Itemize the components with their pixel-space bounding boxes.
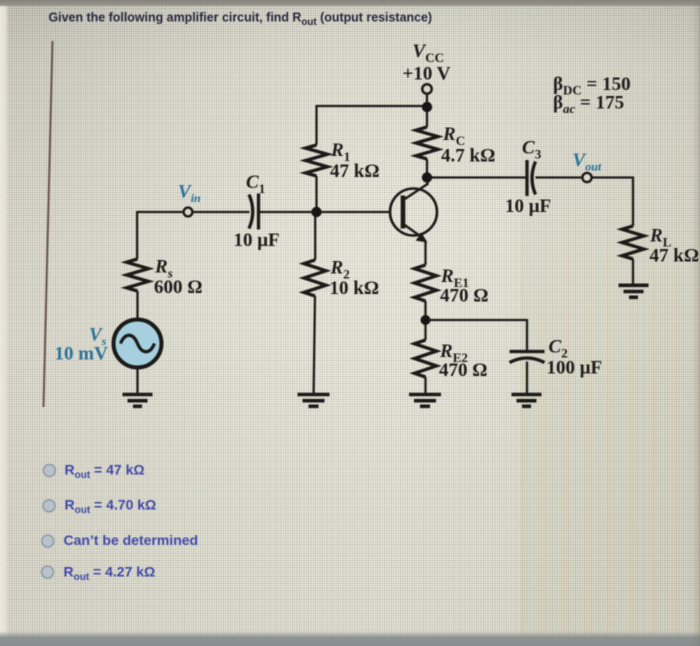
wire emitter to RE1 <box>424 241 426 265</box>
svg-text:C1: C1 <box>246 172 265 196</box>
svg-text:RC: RC <box>442 124 465 148</box>
option text 4 <box>64 564 156 584</box>
beta DC label <box>553 74 631 98</box>
wire Vin to C1 <box>192 211 249 213</box>
option text 3 <box>64 532 199 548</box>
svg-text:C3: C3 <box>522 138 542 162</box>
svg-text:10 kΩ: 10 kΩ <box>330 278 380 299</box>
title text <box>49 11 433 28</box>
svg-text:100 μF: 100 μF <box>547 358 603 379</box>
resistor R2 label <box>330 258 380 300</box>
wire emitter node to RE2 <box>424 319 426 340</box>
wire Vout to RL corner <box>591 178 633 227</box>
resistor RC <box>416 127 438 159</box>
svg-text:10 μF: 10 μF <box>505 196 551 217</box>
resistor R2 <box>304 260 326 296</box>
wire Rs to source <box>136 291 138 321</box>
node junction emitter <box>421 315 431 325</box>
svg-text:Given the following amplifier: Given the following amplifier circuit, f… <box>49 11 433 28</box>
node Vout label <box>573 150 602 174</box>
option text 2 <box>65 497 157 517</box>
wire RC bottom to collector node <box>426 159 428 178</box>
node junction collector <box>422 172 432 182</box>
option radio 3 <box>42 535 54 547</box>
capacitor C3 label <box>505 138 551 218</box>
transistor Q1 <box>390 176 437 243</box>
resistor Rs <box>127 259 149 291</box>
resistor RL label <box>649 226 699 267</box>
resistor RE1 <box>415 265 437 301</box>
svg-text:Rout = 4.70 kΩ: Rout = 4.70 kΩ <box>65 497 157 517</box>
source Vs label <box>55 325 109 365</box>
wire RE2 to ground <box>424 377 426 394</box>
resistor RE2 label <box>439 341 487 381</box>
ground R2 <box>298 395 330 407</box>
wire C2 to ground <box>526 362 528 394</box>
wire C1 to base node and transistor <box>260 211 391 213</box>
wire emitter node to C2 <box>426 319 528 321</box>
wire left column to Rs <box>136 211 138 259</box>
svg-text:10 μF: 10 μF <box>234 230 280 251</box>
resistor RL <box>622 226 644 259</box>
wire R1 bottom to base node <box>315 176 317 212</box>
capacitor C2 label <box>547 337 603 379</box>
resistor RC label <box>441 124 495 167</box>
resistor RE1 label <box>440 266 488 307</box>
resistor Rs label <box>154 257 202 299</box>
capacitor C1 label <box>234 172 280 251</box>
svg-text:47 kΩ: 47 kΩ <box>330 161 380 182</box>
VCC label <box>403 41 451 85</box>
svg-text:470 Ω: 470 Ω <box>439 360 487 381</box>
wire C3 to Vout <box>536 176 583 178</box>
capacitor C3 <box>527 160 536 196</box>
svg-text:470 Ω: 470 Ω <box>440 286 488 307</box>
wire RE1 to emitter node <box>424 301 426 321</box>
wire collector node to C3 <box>427 176 526 178</box>
node Vin terminal <box>184 208 193 217</box>
svg-text:VCC: VCC <box>413 41 444 65</box>
ground Vs <box>123 395 153 407</box>
ground RL <box>619 285 649 297</box>
ground C2 <box>512 395 542 407</box>
wire Vin left segment <box>137 211 184 213</box>
resistor RE2 <box>415 340 437 377</box>
resistor R1 <box>306 145 328 176</box>
svg-text:Vout: Vout <box>573 150 602 174</box>
node junction base <box>311 207 321 217</box>
svg-text:Rout = 4.27 kΩ: Rout = 4.27 kΩ <box>64 564 156 584</box>
option radio 4 <box>42 566 54 578</box>
beta ac label <box>553 93 624 117</box>
wire base node to R2 <box>314 212 316 260</box>
wire R1 top <box>315 105 317 145</box>
wire RC top <box>426 107 428 127</box>
option text 1 <box>65 462 145 482</box>
svg-text:Vin: Vin <box>178 182 201 206</box>
option radio 2 <box>43 500 55 512</box>
capacitor C1 <box>249 194 259 230</box>
wire source to ground <box>136 367 138 394</box>
node Vin label <box>178 182 201 206</box>
svg-text:600 Ω: 600 Ω <box>154 277 202 298</box>
wire top rail R1 to VCC <box>317 105 428 107</box>
wire VCC stub <box>426 94 428 108</box>
wire R2 to ground <box>314 296 315 394</box>
source Vs <box>114 320 162 368</box>
node Vout terminal <box>582 173 591 182</box>
wire RL bottom to ground <box>632 259 634 285</box>
capacitor C2 <box>510 352 545 363</box>
svg-text:4.7 kΩ: 4.7 kΩ <box>441 146 495 167</box>
pen mark line <box>44 41 53 407</box>
svg-text:+10 V: +10 V <box>403 64 451 85</box>
VCC terminal <box>422 84 431 93</box>
wire C2 top <box>526 319 528 350</box>
svg-text:Can’t be determined: Can’t be determined <box>64 532 199 548</box>
svg-text:47 kΩ: 47 kΩ <box>650 246 700 267</box>
svg-text:Rout = 47 kΩ: Rout = 47 kΩ <box>65 462 145 482</box>
option radio 1 <box>43 465 55 477</box>
resistor R1 label <box>330 140 380 182</box>
svg-text:10 mV: 10 mV <box>55 344 109 365</box>
node junction VCC <box>422 102 432 112</box>
ground RE2 <box>409 395 441 407</box>
